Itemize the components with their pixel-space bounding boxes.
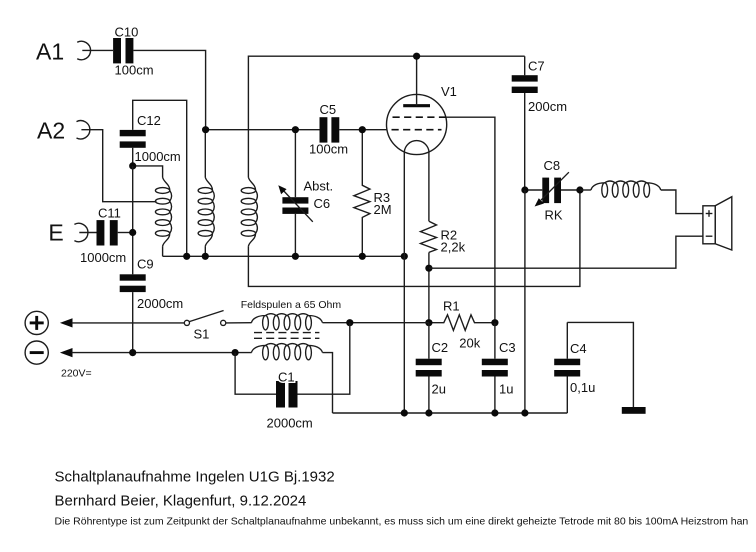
node rail-L2 — [202, 253, 209, 260]
capacitor C10 — [113, 25, 153, 78]
capacitor C11 — [80, 206, 126, 266]
wire C7 line to bottom rail — [524, 190, 526, 413]
svg-text:2u: 2u — [432, 382, 446, 397]
svg-text:2000cm: 2000cm — [267, 416, 313, 431]
capacitor C12 — [120, 113, 181, 164]
variable capacitor C8 — [535, 158, 569, 223]
wire C2 legs — [428, 323, 430, 413]
switch S1 — [184, 311, 226, 342]
svg-text:1000cm: 1000cm — [135, 149, 181, 164]
wire C6 top — [294, 130, 296, 198]
svg-text:Schaltplanaufnahme Ingelen U1G: Schaltplanaufnahme Ingelen U1G Bj.1932 — [55, 468, 335, 485]
svg-text:Bernhard Beier, Klagenfurt, 9.: Bernhard Beier, Klagenfurt, 9.12.2024 — [55, 493, 307, 510]
node R1 left — [425, 319, 432, 326]
wire L3 bottom feedback run — [248, 190, 580, 286]
svg-text:C7: C7 — [528, 59, 545, 74]
svg-text:C1: C1 — [278, 369, 295, 384]
svg-text:100cm: 100cm — [309, 141, 348, 156]
svg-text:0,1u: 0,1u — [570, 380, 595, 395]
wire switch to field coil — [226, 322, 252, 324]
node anode rail — [413, 53, 420, 60]
node C6 rail — [292, 253, 299, 260]
coil L1 antenna — [155, 177, 171, 246]
wire L2 bottom — [204, 246, 206, 256]
wire R2 bottom leg — [428, 252, 430, 322]
wire C12 top frame — [133, 100, 187, 256]
capacitor C7 — [512, 56, 567, 190]
svg-text:C12: C12 — [137, 113, 161, 128]
svg-text:Abst.: Abst. — [304, 178, 334, 193]
wire L2 top — [204, 130, 206, 178]
svg-text:2M: 2M — [374, 202, 392, 217]
arrow plus — [60, 318, 73, 327]
ground — [622, 407, 646, 414]
field coil bottom — [251, 344, 322, 360]
svg-text:S1: S1 — [194, 327, 210, 342]
capacitor C1 — [235, 323, 350, 431]
node rail C2 — [425, 409, 432, 416]
arrow minus — [60, 348, 73, 357]
resistor R3 — [354, 130, 392, 257]
node C8 output — [576, 186, 583, 193]
wire C4 to ground — [567, 322, 633, 407]
tube V1 — [387, 56, 457, 154]
capacitor C3 — [482, 340, 516, 396]
svg-text:1000cm: 1000cm — [80, 250, 126, 265]
wire A2 to coil tap — [81, 130, 156, 202]
svg-text:RK: RK — [545, 208, 563, 223]
node minus C9 — [129, 349, 136, 356]
wire plus to switch — [72, 322, 185, 324]
svg-text:220V=: 220V= — [61, 367, 92, 379]
minus rail — [72, 352, 252, 354]
capacitor C9 — [120, 257, 184, 312]
wire C6 bottom — [294, 214, 296, 256]
resistor R1 — [429, 298, 495, 350]
svg-text:V1: V1 — [441, 84, 457, 99]
wire C10 to grid node — [133, 50, 205, 129]
bottom rail — [333, 412, 568, 414]
node grid-C10-L2 — [202, 126, 209, 133]
svg-text:Die Röhrentype ist zum Zeitpun: Die Röhrentype ist zum Zeitpunkt der Sch… — [55, 516, 749, 528]
terminal minus — [25, 341, 48, 364]
wire A1 to C10 — [82, 49, 113, 51]
wire L1 bottom — [162, 246, 164, 256]
svg-text:1u: 1u — [499, 382, 513, 397]
capacitor C2 — [416, 340, 448, 396]
wire C7 node to C8 — [525, 189, 542, 191]
wire E to C11 — [79, 232, 96, 234]
svg-text:E: E — [48, 219, 63, 245]
wire C9 to minus rail — [132, 292, 134, 353]
svg-text:2,2k: 2,2k — [441, 240, 466, 255]
svg-text:C5: C5 — [320, 102, 337, 117]
node E-C11 — [129, 229, 136, 236]
variable capacitor C6 — [278, 178, 333, 221]
wire C12 node down to E node and C9 — [132, 166, 134, 274]
terminal E — [48, 219, 88, 245]
node rail filament — [401, 253, 408, 260]
svg-text:20k: 20k — [459, 335, 480, 350]
svg-text:C6: C6 — [314, 196, 331, 211]
svg-text:R1: R1 — [443, 298, 460, 313]
svg-text:C10: C10 — [115, 25, 139, 40]
grounded rail under coils — [163, 255, 405, 257]
filament right leg — [428, 152, 430, 221]
svg-text:A2: A2 — [37, 117, 65, 143]
wire C11 to node — [118, 232, 133, 234]
svg-text:A1: A1 — [36, 38, 64, 64]
svg-text:C2: C2 — [432, 340, 449, 355]
terminal A1 — [36, 38, 91, 64]
field coil top — [251, 314, 322, 330]
wire C12 bottom to coil L1 — [133, 148, 163, 178]
filament left leg — [403, 152, 405, 413]
field coil core — [254, 333, 319, 339]
svg-text:2000cm: 2000cm — [137, 296, 183, 311]
capacitor C4 — [554, 341, 595, 395]
svg-text:C9: C9 — [137, 257, 154, 272]
resistor R2 — [421, 221, 466, 254]
node C1 right riser — [346, 319, 353, 326]
coil L3 feedback — [241, 177, 257, 246]
node R3 rail — [359, 253, 366, 260]
screen grid wire — [446, 117, 495, 323]
node C6 top — [292, 126, 299, 133]
node R3 top — [359, 126, 366, 133]
node C12-L1 — [129, 162, 136, 169]
terminal A2 — [37, 117, 90, 143]
node rail C3 — [491, 409, 498, 416]
svg-text:Feldspulen a 65 Ohm: Feldspulen a 65 Ohm — [241, 299, 342, 311]
svg-text:200cm: 200cm — [528, 99, 567, 114]
wire node to output coil — [580, 189, 591, 191]
wire top coil out to R1 — [323, 322, 429, 324]
wire coil to speaker plus — [661, 190, 703, 214]
grid wire — [206, 129, 387, 131]
node rail C7 — [521, 409, 528, 416]
wire bottom coil to bottom rail — [323, 353, 333, 413]
wire C3 legs — [494, 323, 496, 413]
node rail-C12frame — [183, 253, 190, 260]
wire L3 top to anode rail — [248, 56, 524, 177]
loudspeaker — [703, 197, 732, 250]
svg-text:C11: C11 — [98, 206, 121, 221]
node C7-C8 — [521, 186, 528, 193]
terminal plus — [25, 311, 48, 334]
capacitor C5 — [309, 102, 348, 156]
wire C4 legs — [566, 322, 568, 413]
wire C8 to output node — [561, 189, 580, 191]
node rail filament-left — [401, 409, 408, 416]
wire cathode return to speaker — [429, 236, 703, 268]
svg-text:C3: C3 — [499, 340, 516, 355]
svg-text:100cm: 100cm — [115, 63, 154, 78]
svg-text:C8: C8 — [544, 158, 561, 173]
coil L2 — [198, 177, 214, 246]
output coil — [591, 181, 661, 197]
node R1 right — [491, 319, 498, 326]
node C1 left — [232, 349, 239, 356]
node R2 out — [425, 265, 432, 272]
svg-text:C4: C4 — [570, 341, 587, 356]
